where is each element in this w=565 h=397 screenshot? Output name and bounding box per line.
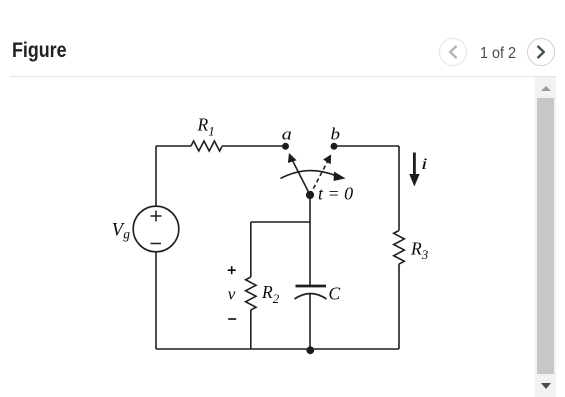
switch blade solid toward a	[293, 161, 311, 196]
scrollbar down arrow	[541, 383, 551, 389]
scrollbar thumb	[537, 98, 555, 374]
svg-text:t = 0: t = 0	[318, 184, 353, 204]
svg-text:i: i	[421, 156, 428, 173]
pagination next button	[527, 38, 555, 66]
resistor R2	[246, 277, 256, 310]
node a	[282, 143, 289, 150]
arrowhead of motion arc	[334, 172, 346, 181]
svg-text:C: C	[329, 283, 341, 303]
svg-text:a: a	[282, 125, 292, 144]
switch blade dashed toward b	[310, 162, 328, 196]
wire bottom	[156, 348, 399, 350]
wire right side upper	[398, 146, 400, 231]
scrollbar up arrow	[541, 86, 551, 91]
header separator line	[10, 76, 556, 77]
source Vg circle	[133, 206, 179, 252]
svg-text:b: b	[331, 124, 341, 143]
wire node b to top-right corner	[334, 145, 399, 147]
capacitor C top plate	[296, 285, 327, 288]
wire capacitor to bottom	[309, 294, 311, 349]
node b	[331, 143, 338, 150]
arrowhead of dashed blade	[323, 155, 331, 165]
resistor R3	[394, 231, 405, 265]
switch pivot node	[306, 191, 314, 199]
label plus above v	[228, 266, 236, 274]
bottom junction node	[306, 346, 314, 354]
resistor R1	[191, 141, 222, 151]
wire horizontal to R2 branch	[251, 221, 310, 223]
current arrow i	[413, 153, 416, 176]
svg-text:R1: R1	[197, 115, 215, 139]
wire R2 branch upper	[250, 222, 252, 277]
svg-text:R2: R2	[261, 282, 280, 306]
label minus below v	[228, 318, 236, 320]
arrowhead of solid blade	[288, 153, 297, 163]
capacitor C bottom curved plate	[295, 294, 327, 300]
pagination prev button	[439, 38, 467, 66]
header title	[12, 40, 67, 61]
wire switch pivot down to capacitor	[309, 196, 311, 285]
svg-text:Vg: Vg	[112, 221, 131, 242]
wire right side lower	[398, 264, 400, 349]
wire left lower	[155, 252, 157, 349]
switch motion arc	[281, 171, 337, 179]
scrollbar track	[535, 77, 556, 397]
wire top-left segment	[156, 145, 191, 147]
source minus sign	[151, 243, 162, 245]
pagination label	[480, 46, 516, 62]
wire left upper	[155, 146, 157, 206]
wire R1 to node a	[222, 145, 285, 147]
svg-text:v: v	[228, 285, 236, 304]
source plus sign	[151, 211, 162, 222]
svg-text:R3: R3	[410, 239, 429, 263]
wire R2 branch lower	[250, 310, 252, 349]
